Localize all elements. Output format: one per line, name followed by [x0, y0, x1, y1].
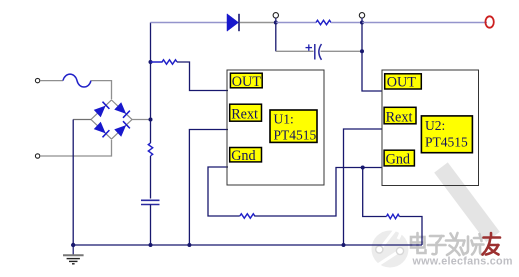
U2 box — [382, 70, 479, 186]
capacitor C2 left plate — [314, 44, 316, 60]
U1 pin label Rext — [230, 104, 262, 122]
resistor R5 zigzag — [386, 214, 399, 218]
U2 pin label Gnd — [384, 150, 414, 167]
wire U2 Rext to rail — [344, 129, 383, 245]
input terminal J2 bottom — [35, 154, 39, 158]
U2 pin label OUT — [385, 74, 422, 91]
bridge diode bottom-left — [94, 122, 109, 137]
U2 value box PT4515 — [421, 116, 472, 153]
watermark logo circle — [372, 227, 409, 268]
capacitor C2 right plate arc — [319, 44, 322, 60]
wire R4 to U2 Gnd — [254, 168, 382, 217]
wire left vertical to rail — [72, 120, 74, 246]
wire bridge right to main vertical — [132, 119, 151, 121]
ground symbol — [63, 245, 84, 264]
char 烧 — [463, 234, 484, 255]
diode D2 — [227, 14, 239, 31]
wire fuse to bridge top — [91, 81, 112, 99]
wire terminal2 to bridge bottom — [40, 140, 111, 156]
char 电 — [411, 233, 426, 253]
wire cap to node3 — [321, 50, 363, 52]
svg-text:OUT: OUT — [387, 75, 416, 91]
U1 pin label Gnd — [230, 148, 262, 165]
wire diode to node1 gray — [240, 22, 276, 24]
svg-text:Gnd: Gnd — [386, 152, 410, 168]
svg-text:OUT: OUT — [232, 74, 261, 90]
svg-text:Gnd: Gnd — [231, 148, 255, 164]
U1 box — [227, 70, 324, 185]
wire node1 to resistor R2 — [276, 22, 316, 24]
junction main/R3 — [149, 60, 153, 64]
resistor R3 zigzag — [151, 60, 178, 64]
wire R5 to rail corner — [399, 217, 422, 246]
junction node3 — [360, 49, 364, 53]
diode D2 cathode bar — [238, 14, 240, 31]
watermark diagonal stripe — [434, 162, 500, 242]
watermark text 电子发烧友 (drawn strokes) — [411, 233, 500, 255]
junction rail rext1 — [187, 243, 191, 247]
wire terminal to fuse — [40, 80, 63, 82]
terminal node1 circle — [273, 13, 278, 18]
wire U1 Rext to rail — [189, 130, 228, 246]
svg-text:Rext: Rext — [231, 106, 258, 122]
char 子 — [428, 236, 446, 254]
junction node1 — [274, 21, 278, 25]
U1 pin label OUT — [230, 73, 262, 90]
capacitor C1 plates — [141, 200, 160, 204]
junction rail rext2 — [342, 243, 346, 247]
svg-text:www.elecfans.com: www.elecfans.com — [412, 256, 513, 268]
svg-text:PT4515: PT4515 — [274, 128, 317, 143]
bridge diode top-right — [115, 103, 130, 118]
stub node1 — [275, 18, 277, 23]
wire R3 to U1 OUT — [177, 62, 228, 91]
resistor R1 vertical zigzag — [148, 143, 152, 156]
U1 value box PT4515 — [270, 110, 317, 143]
stub node2 — [361, 18, 363, 23]
wire bridge left to ground rail — [73, 119, 91, 121]
main vertical wire — [150, 23, 152, 144]
wire U1 Gnd run — [208, 167, 240, 216]
svg-text:U1:: U1: — [274, 112, 294, 127]
char 友 (dark red) — [483, 233, 501, 255]
stub node1 down to cap branch — [275, 23, 277, 52]
bottom rail — [73, 244, 422, 246]
wire R2 to node2 — [331, 22, 362, 24]
wire U2 gnd node down to R5 — [363, 168, 387, 217]
junction rail ground — [71, 243, 75, 247]
top wire slate left of diode — [151, 22, 228, 24]
input terminal J1 top — [35, 78, 39, 82]
svg-text:PT4515: PT4515 — [425, 135, 468, 150]
bridge rectifier D1 diamond — [91, 100, 132, 139]
bridge diode top-left — [94, 102, 109, 117]
char 发 — [446, 233, 464, 255]
capacitor C2 plus sign — [306, 44, 313, 50]
fuse F1 — [63, 74, 91, 87]
terminal node2 circle — [359, 13, 364, 18]
U2 pin label Rext — [384, 107, 416, 125]
wire to capacitor C2 — [276, 50, 314, 52]
junction node2 — [360, 21, 364, 25]
wire cap to rail — [150, 205, 152, 246]
junction rail main — [149, 243, 153, 247]
wire resistor to cap — [150, 156, 152, 199]
bridge diode bottom-right — [115, 121, 130, 136]
wire node2 down through node3 to U2 OUT — [362, 23, 382, 92]
junction bridge node — [149, 118, 153, 122]
svg-text:U2:: U2: — [425, 118, 445, 133]
wire node2 to output — [362, 22, 487, 24]
svg-text:Rext: Rext — [386, 109, 413, 125]
resistor R4 zigzag — [240, 214, 255, 218]
resistor R2 zigzag — [316, 20, 331, 24]
output terminal red — [485, 16, 493, 27]
junction U2 gnd node — [361, 166, 365, 170]
